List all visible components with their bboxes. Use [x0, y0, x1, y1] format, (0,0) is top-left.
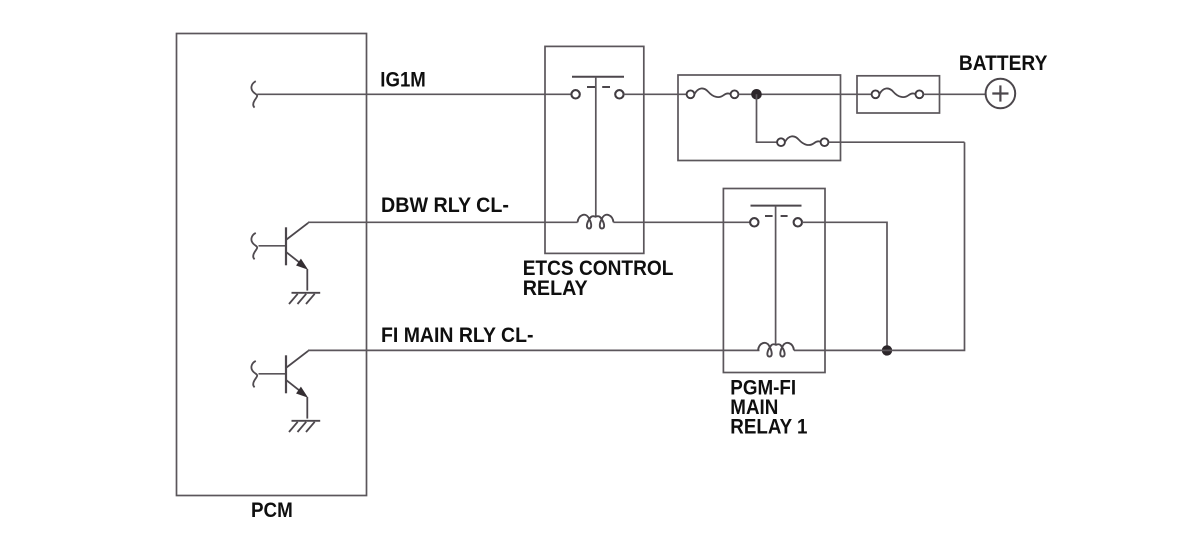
junction node dot 1: [751, 89, 762, 100]
wire IG1M: PCM to ETCS relay contact: [257, 93, 571, 95]
transistor Q1 emitter lead: [306, 269, 308, 291]
connector break squiggle (FI MAIN pin): [251, 361, 257, 387]
svg-text:PCM: PCM: [251, 499, 293, 522]
fuse F1 element: [694, 88, 730, 97]
wire DBW RLY CL-: Q1 collector to ETCS coil to PGM-FI contact: [308, 221, 578, 223]
fuse F3 terminal right: [916, 90, 924, 98]
ETCS relay stem wire: [595, 77, 597, 217]
junction node dot 2: [882, 345, 892, 355]
PGM-FI MAIN RELAY 1 box: [723, 189, 825, 373]
fuse/relay box (under-hood fuse box): [678, 75, 841, 161]
PGM-FI relay armature bar: [751, 205, 802, 207]
PCM box: [177, 34, 367, 496]
wire PGM-FI contact right to junction 2: [802, 222, 887, 350]
wire fuse F1 to fuse box B: [739, 93, 872, 95]
transistor Q2 emitter arrowhead: [297, 388, 307, 397]
fuse box B (battery fuse): [857, 76, 940, 113]
ETCS relay dashed link: [587, 86, 595, 88]
wire fuse F2 right to corner riser: [829, 141, 965, 143]
PGM-FI relay coil: [758, 343, 794, 357]
svg-text:FI MAIN RLY CL-: FI MAIN RLY CL-: [381, 324, 534, 347]
wire junction 1 down to fuse F2: [757, 94, 777, 142]
transistor Q1 emitter arrowhead: [297, 260, 307, 269]
fuse F3 terminal left: [872, 90, 880, 98]
ETCS relay armature bar: [572, 76, 624, 78]
transistor Q2 collector: [287, 351, 309, 368]
PGM-FI relay stem wire: [775, 206, 777, 345]
ETCS CONTROL RELAY box: [545, 46, 644, 253]
wire PGM-FI coil to riser to fuse F2: [794, 142, 965, 350]
fuse F1 terminal left: [687, 90, 695, 98]
transistor Q2 emitter: [287, 380, 304, 393]
ground G1: [289, 293, 320, 304]
fuse F3 element: [879, 88, 915, 97]
transistor Q2 emitter lead: [306, 397, 308, 419]
wire ETCS contact to fuse box: [624, 93, 687, 95]
ETCS relay contact terminal right: [615, 90, 623, 98]
svg-text:DBW RLY CL-: DBW RLY CL-: [381, 194, 509, 217]
transistor Q2 base wire: [259, 373, 287, 375]
PGM-FI relay contact terminal right: [794, 218, 802, 226]
ground G2: [289, 421, 320, 432]
ETCS relay coil: [578, 215, 614, 229]
PGM-FI relay contact terminal left: [750, 218, 758, 226]
connector break squiggle (DBW pin): [251, 233, 257, 259]
transistor Q2 base bar: [285, 355, 287, 393]
PGM-FI relay dashed link: [765, 215, 773, 217]
ETCS relay contact terminal left: [571, 90, 579, 98]
transistor Q1 base bar: [285, 227, 287, 265]
fuse F2 terminal right: [821, 138, 829, 146]
svg-text:IG1M: IG1M: [380, 68, 426, 91]
fuse F2 terminal left: [777, 138, 785, 146]
wire fuse F3 to battery: [924, 93, 986, 95]
svg-text:RELAY: RELAY: [523, 277, 588, 300]
transistor Q1 collector: [287, 223, 309, 240]
transistor Q1 base wire: [259, 245, 287, 247]
svg-text:BATTERY: BATTERY: [959, 52, 1048, 75]
fuse F2 element: [785, 136, 821, 145]
transistor Q1 emitter: [287, 252, 304, 265]
fuse F1 terminal right: [731, 90, 739, 98]
connector break squiggle (IG1M pin): [251, 81, 257, 107]
wire FI MAIN RLY CL-: Q2 collector to PGM-FI coil: [308, 349, 760, 351]
svg-text:RELAY 1: RELAY 1: [730, 416, 807, 439]
battery terminal symbol: [986, 79, 1016, 109]
